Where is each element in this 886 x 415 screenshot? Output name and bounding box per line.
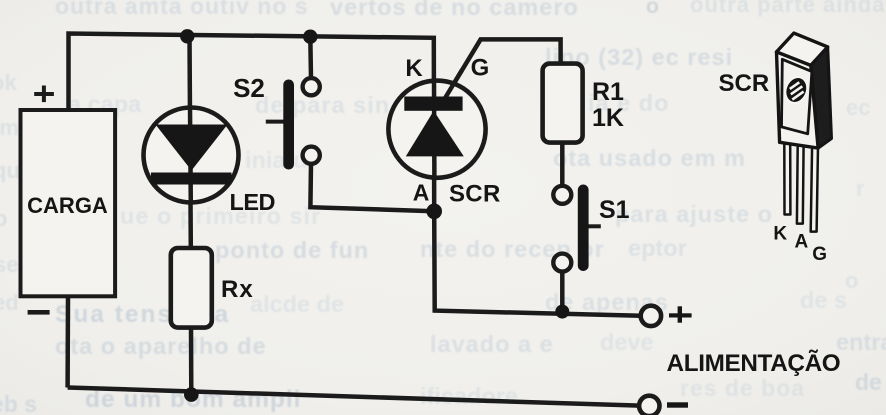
svg-text:K: K <box>773 224 787 245</box>
svg-text:ec: ec <box>846 95 870 120</box>
svg-text:CARGA: CARGA <box>27 193 108 218</box>
svg-text:A: A <box>413 180 430 206</box>
svg-text:ed: ed <box>0 290 19 315</box>
svg-text:se: se <box>0 252 18 277</box>
svg-text:outra parte ainda: outra parte ainda <box>690 0 885 17</box>
svg-text:lavado a e: lavado a e <box>430 331 554 357</box>
svg-text:G: G <box>471 55 490 82</box>
svg-text:eptor: eptor <box>628 235 687 261</box>
svg-text:p: p <box>0 206 7 231</box>
svg-text:alcde de: alcde de <box>250 291 344 317</box>
svg-text:SCR: SCR <box>449 181 501 208</box>
svg-text:K: K <box>405 55 423 82</box>
svg-text:entrada: entrada <box>836 329 886 355</box>
svg-text:de s: de s <box>800 287 847 313</box>
svg-text:ue o primeiro sir: ue o primeiro sir <box>120 203 321 229</box>
svg-text:nte do recep or: nte do recep or <box>420 236 605 262</box>
svg-text:eb s: eb s <box>0 391 37 415</box>
svg-text:S2: S2 <box>233 73 265 103</box>
svg-text:ificadore: ificadore <box>420 383 518 409</box>
svg-text:o: o <box>646 0 659 18</box>
svg-text:Rx: Rx <box>221 276 254 303</box>
svg-text:qu: qu <box>0 158 20 183</box>
svg-text:res de boa: res de boa <box>680 375 805 401</box>
svg-text:r: r <box>856 176 865 201</box>
svg-text:LED: LED <box>230 189 276 215</box>
svg-text:de: de <box>855 369 882 395</box>
svg-text:R1: R1 <box>592 78 624 106</box>
svg-text:deve: deve <box>600 329 654 355</box>
svg-text:SCR: SCR <box>719 70 770 97</box>
svg-text:ALIMENTAÇÃO: ALIMENTAÇÃO <box>667 349 841 377</box>
svg-text:tm: tm <box>0 115 19 140</box>
svg-text:outra amta outiv no s: outra amta outiv no s <box>55 0 309 19</box>
svg-text:1K: 1K <box>592 104 624 132</box>
svg-text:de para sin: de para sin <box>255 92 390 118</box>
svg-text:ok: ok <box>0 70 17 95</box>
svg-text:A: A <box>795 232 809 253</box>
svg-text:ota usado em m: ota usado em m <box>553 145 746 171</box>
svg-text:G: G <box>812 244 827 265</box>
svg-text:para ajuste o: para ajuste o <box>615 201 773 227</box>
svg-text:ota o aparelho de: ota o aparelho de <box>55 333 267 359</box>
svg-text:ponto de fun: ponto de fun <box>215 237 369 263</box>
svg-text:vertos de no camero: vertos de no camero <box>330 0 579 20</box>
svg-text:o: o <box>845 268 858 293</box>
svg-text:S1: S1 <box>599 196 630 224</box>
